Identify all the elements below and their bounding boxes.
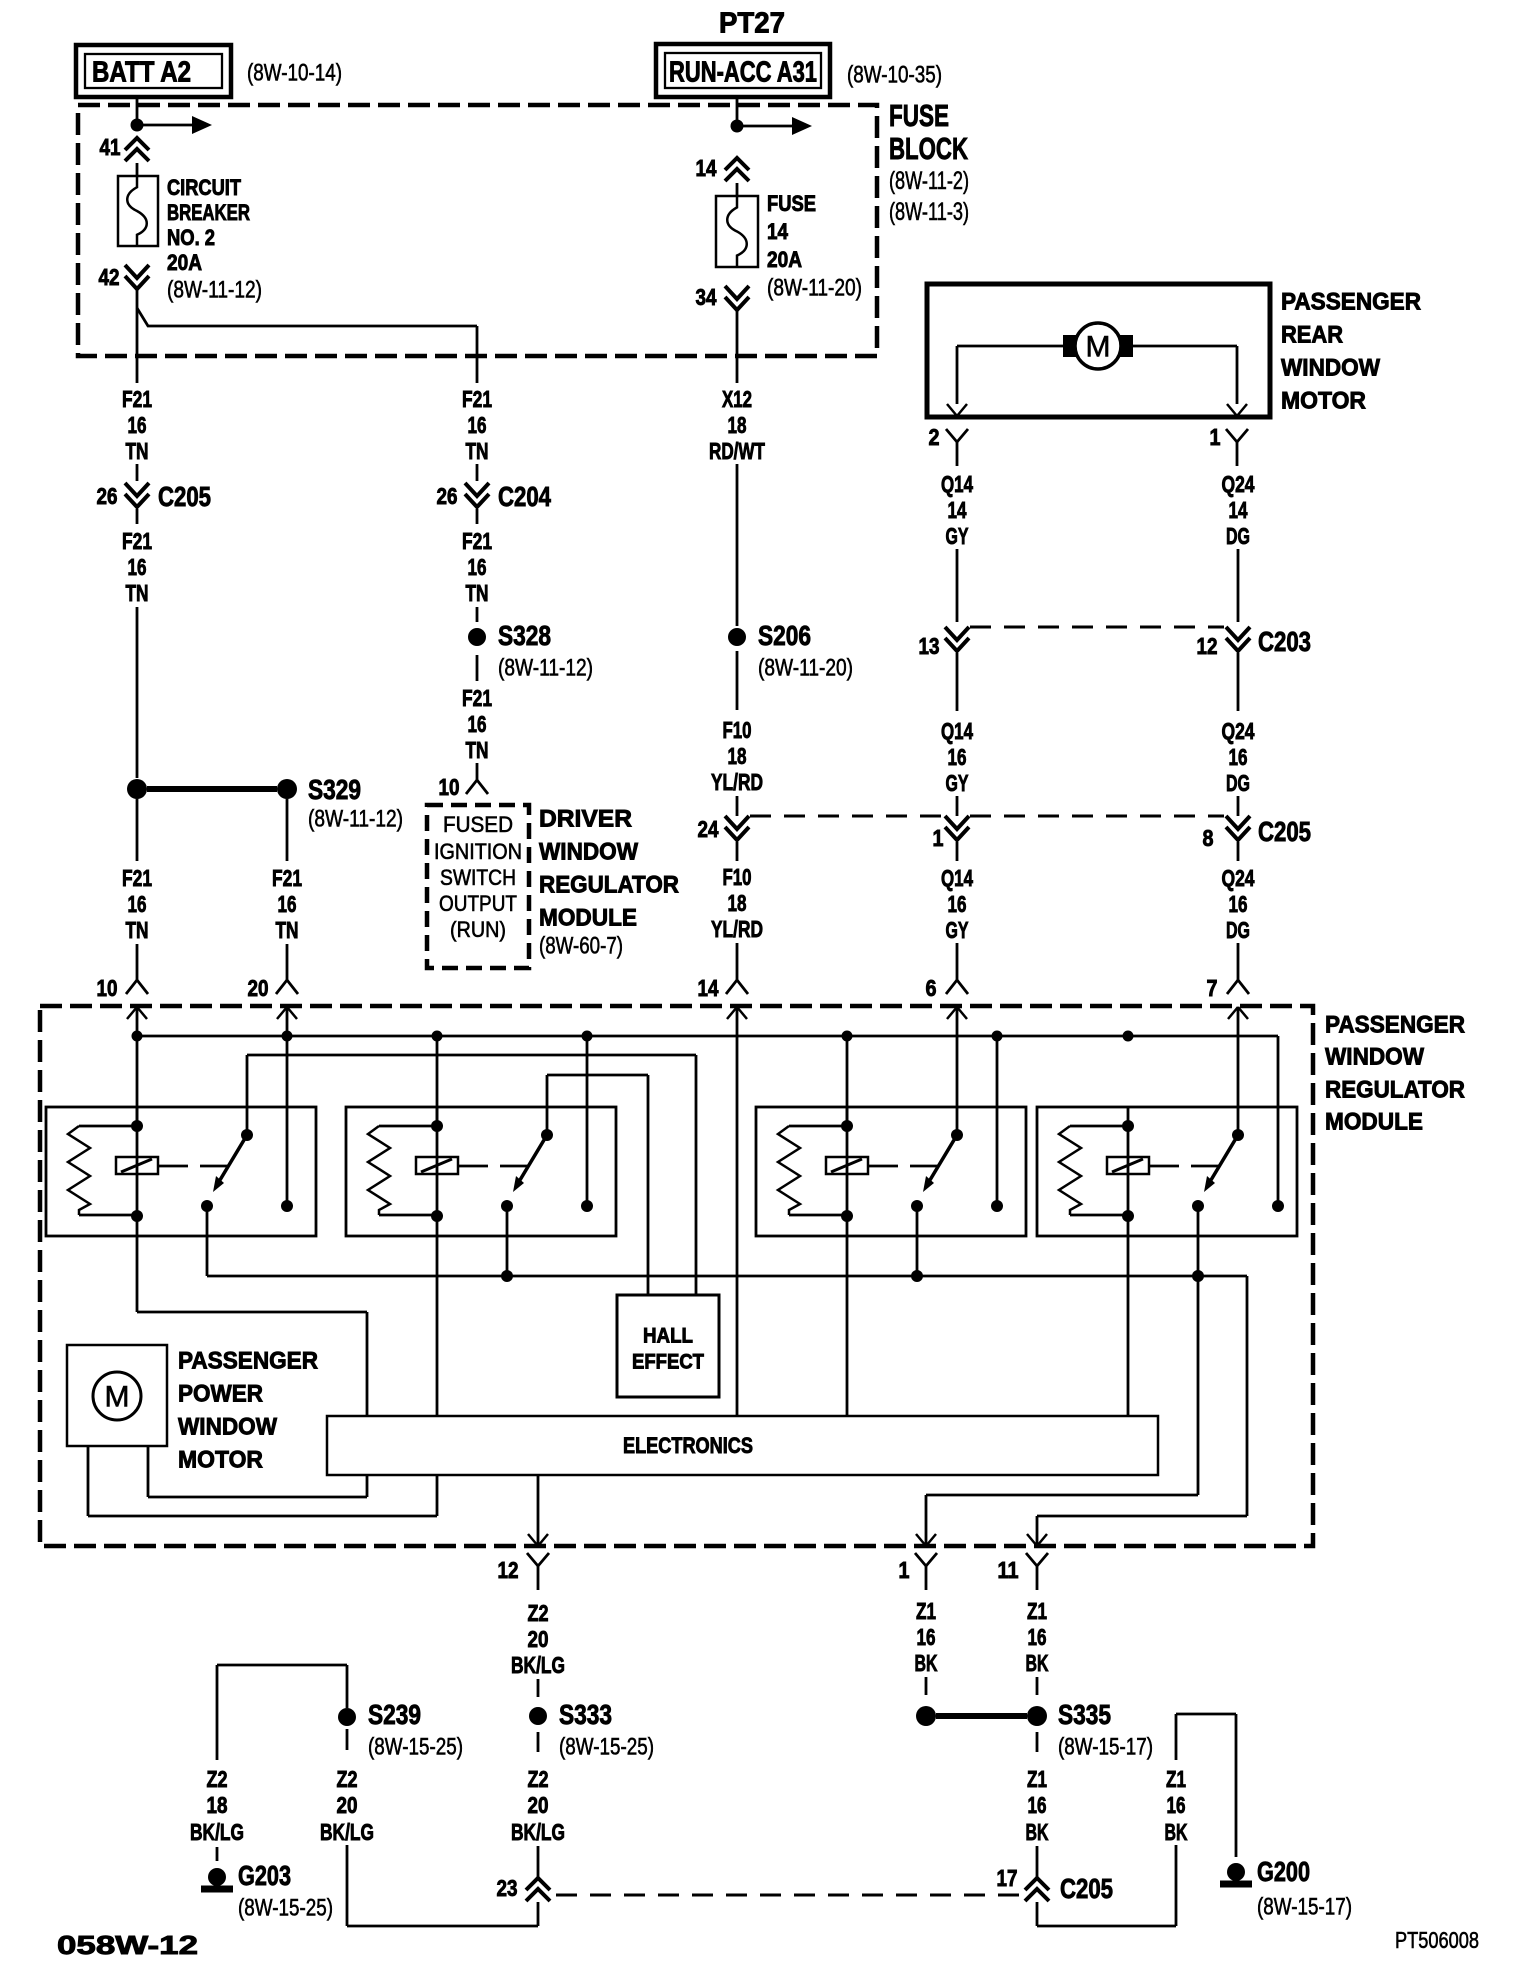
splice S335 xyxy=(916,1706,936,1726)
wire xyxy=(136,464,139,481)
svg-text:F21: F21 xyxy=(122,865,152,891)
svg-text:14: 14 xyxy=(948,497,967,523)
svg-text:POWER: POWER xyxy=(178,1381,263,1408)
wire branch to C204 column xyxy=(137,308,477,326)
svg-text:Z1: Z1 xyxy=(1027,1598,1047,1624)
fuse 14 xyxy=(716,196,758,267)
svg-text:1: 1 xyxy=(899,1557,910,1583)
splice S328 xyxy=(468,628,486,646)
svg-text:FUSED: FUSED xyxy=(443,812,513,837)
svg-text:TN: TN xyxy=(126,438,149,464)
dashed stub xyxy=(1036,1677,1039,1695)
module pin 1 exit arrow xyxy=(916,1534,926,1546)
svg-text:8: 8 xyxy=(1203,825,1214,851)
svg-text:058W-12: 058W-12 xyxy=(57,1930,198,1960)
relay K4 switch xyxy=(1232,1129,1244,1141)
wire rail to pin 1 xyxy=(1197,1276,1200,1495)
svg-text:IGNITION: IGNITION xyxy=(434,839,522,864)
svg-text:14: 14 xyxy=(767,219,789,244)
svg-text:2: 2 xyxy=(929,424,940,450)
svg-text:Z2: Z2 xyxy=(528,1600,549,1626)
wire xyxy=(956,842,959,861)
relay K2 coil line xyxy=(436,1107,439,1236)
svg-text:Q24: Q24 xyxy=(1222,471,1255,497)
relay K2 coil resistor xyxy=(379,1125,432,1128)
wire relay K4 common xyxy=(1197,1206,1200,1276)
svg-text:YL/RD: YL/RD xyxy=(711,916,763,942)
electronics box xyxy=(327,1416,1158,1475)
svg-text:14: 14 xyxy=(1229,497,1248,523)
svg-text:BREAKER: BREAKER xyxy=(167,200,250,225)
svg-text:C205: C205 xyxy=(1258,816,1311,847)
svg-text:FUSE: FUSE xyxy=(889,98,949,133)
svg-text:7: 7 xyxy=(1207,975,1218,1001)
svg-text:16: 16 xyxy=(1229,744,1248,770)
svg-text:12: 12 xyxy=(1197,633,1218,659)
wire relay K4 coil to electronics xyxy=(1127,1236,1130,1416)
svg-text:SWITCH: SWITCH xyxy=(440,865,516,890)
wire BATT A2 to junction xyxy=(136,97,139,125)
svg-text:C203: C203 xyxy=(1258,626,1311,657)
svg-text:(8W-15-17): (8W-15-17) xyxy=(1257,1894,1352,1921)
motor M1 circle xyxy=(1075,323,1121,369)
svg-text:Z2: Z2 xyxy=(528,1766,549,1792)
wire xyxy=(537,1846,540,1878)
relay K2 actuation dashes xyxy=(458,1165,488,1168)
pin 6 entry arrow xyxy=(947,1007,957,1019)
module pin 14 fork xyxy=(736,943,739,964)
wire relay K2 common xyxy=(506,1206,509,1276)
svg-text:HALL: HALL xyxy=(643,1325,693,1348)
wire xyxy=(476,464,479,481)
svg-text:(8W-15-25): (8W-15-25) xyxy=(368,1734,463,1761)
svg-text:BLOCK: BLOCK xyxy=(889,131,968,166)
wire S239 down xyxy=(346,1729,349,1750)
svg-text:16: 16 xyxy=(1028,1792,1047,1818)
svg-text:RD/WT: RD/WT xyxy=(709,438,765,464)
svg-text:M: M xyxy=(1086,331,1111,364)
wire xyxy=(476,509,479,524)
circuit breaker No. 2 xyxy=(118,176,158,246)
wire xyxy=(736,464,739,626)
svg-text:CIRCUIT: CIRCUIT xyxy=(167,175,241,200)
junction dot xyxy=(731,120,744,133)
svg-text:DRIVER: DRIVER xyxy=(539,806,632,833)
svg-text:PASSENGER: PASSENGER xyxy=(1325,1012,1465,1039)
svg-text:C205: C205 xyxy=(158,481,211,512)
svg-text:DG: DG xyxy=(1226,770,1250,796)
svg-text:TN: TN xyxy=(126,580,149,606)
svg-text:11: 11 xyxy=(998,1557,1019,1583)
power feed box BATT A2 xyxy=(76,45,231,97)
svg-text:S329: S329 xyxy=(308,774,361,805)
relay K1 contact xyxy=(281,1200,293,1212)
dashed stub to splice xyxy=(476,607,479,622)
relay K4 actuation dashes xyxy=(1149,1165,1179,1168)
svg-text:M: M xyxy=(105,1381,130,1414)
bus junction dots xyxy=(132,1031,143,1042)
svg-text:Q24: Q24 xyxy=(1222,718,1255,744)
svg-text:YL/RD: YL/RD xyxy=(711,769,763,795)
relay K4 coil line xyxy=(1127,1107,1130,1236)
svg-text:F10: F10 xyxy=(723,864,752,890)
svg-text:PASSENGER: PASSENGER xyxy=(1281,289,1421,316)
svg-text:MOTOR: MOTOR xyxy=(178,1447,263,1474)
svg-text:Z1: Z1 xyxy=(1027,1766,1047,1792)
svg-text:FUSE: FUSE xyxy=(767,191,816,216)
svg-text:(8W-11-20): (8W-11-20) xyxy=(758,655,853,682)
svg-text:10: 10 xyxy=(439,774,460,800)
svg-text:PT506008: PT506008 xyxy=(1395,1927,1479,1953)
relay K2 coil xyxy=(416,1157,458,1174)
svg-text:BK: BK xyxy=(1026,1650,1049,1676)
svg-text:18: 18 xyxy=(728,890,747,916)
svg-text:ELECTRONICS: ELECTRONICS xyxy=(623,1433,753,1458)
svg-text:F10: F10 xyxy=(723,717,752,743)
svg-text:BK: BK xyxy=(1026,1819,1049,1845)
relay K4 box xyxy=(1037,1107,1297,1236)
rail junction dots xyxy=(501,1270,513,1282)
relay K3 actuation dashes xyxy=(868,1165,898,1168)
wire xyxy=(136,509,139,524)
svg-text:PT27: PT27 xyxy=(719,7,785,39)
wire below pin 17 xyxy=(1036,1902,1039,1926)
wire xyxy=(956,653,959,711)
svg-text:26: 26 xyxy=(437,483,458,509)
relay K2 contact xyxy=(581,1200,593,1212)
svg-text:G203: G203 xyxy=(238,1860,291,1891)
dashed link pin 23 to pin 17 xyxy=(556,1894,1024,1897)
power feed box RUN-ACC A31 xyxy=(656,44,830,97)
svg-text:S206: S206 xyxy=(758,620,811,651)
ground G203 xyxy=(208,1868,226,1886)
svg-text:(8W-11-2): (8W-11-2) xyxy=(889,167,969,195)
svg-text:20A: 20A xyxy=(167,250,202,275)
wire below splice right xyxy=(286,799,289,861)
svg-text:RUN-ACC A31: RUN-ACC A31 xyxy=(669,56,817,88)
relay K1 switch xyxy=(241,1129,253,1141)
svg-text:C204: C204 xyxy=(498,481,551,512)
svg-text:20: 20 xyxy=(528,1792,549,1818)
svg-text:REGULATOR: REGULATOR xyxy=(1325,1077,1465,1104)
relay K3 switch xyxy=(951,1129,963,1141)
wire down to splice xyxy=(136,607,139,778)
svg-text:BK: BK xyxy=(1165,1819,1188,1845)
fuse block dashed outline xyxy=(78,105,877,356)
svg-text:BK/LG: BK/LG xyxy=(511,1819,565,1845)
pin 10 fork into driver module xyxy=(476,763,479,780)
svg-text:16: 16 xyxy=(468,711,487,737)
power bus wire xyxy=(137,1035,1278,1038)
wire breaker output down xyxy=(136,290,139,383)
wire S239 up and over xyxy=(346,1665,349,1708)
wire fuse output down xyxy=(736,311,739,383)
module pin 11 exit arrow xyxy=(1027,1534,1037,1546)
wire to circuit breaker xyxy=(136,163,139,176)
svg-text:16: 16 xyxy=(128,554,147,580)
wire motor to electronics left xyxy=(87,1446,90,1516)
arrow feed right xyxy=(137,124,192,127)
svg-text:23: 23 xyxy=(497,1875,518,1901)
wire electronics output pin 12 xyxy=(537,1475,540,1546)
wire to G200 branch xyxy=(1037,1925,1176,1928)
svg-text:24: 24 xyxy=(698,816,719,842)
svg-text:WINDOW: WINDOW xyxy=(178,1414,277,1441)
svg-text:REAR: REAR xyxy=(1281,322,1343,349)
svg-text:DG: DG xyxy=(1226,917,1250,943)
module pin 12 fork xyxy=(527,1553,538,1566)
hall effect sensor box xyxy=(617,1295,719,1397)
relay K1 actuation dashes xyxy=(158,1165,188,1168)
relay K1 coil xyxy=(116,1157,158,1174)
svg-text:MODULE: MODULE xyxy=(1325,1109,1423,1136)
wire below splice left xyxy=(136,799,139,861)
wire up and over to G200 xyxy=(1175,1714,1178,1760)
wire xyxy=(1237,653,1240,711)
relay K2 switch xyxy=(541,1129,553,1141)
svg-text:TN: TN xyxy=(466,580,489,606)
dashed stub xyxy=(1036,1732,1039,1752)
svg-text:20: 20 xyxy=(528,1626,549,1652)
svg-text:41: 41 xyxy=(100,134,121,160)
wire motor terminal 2 xyxy=(957,345,1063,348)
junction dot xyxy=(131,119,144,132)
wire RUN-ACC to junction xyxy=(736,97,739,126)
ground G200 xyxy=(1227,1863,1245,1881)
svg-text:(8W-10-14): (8W-10-14) xyxy=(247,60,342,87)
svg-text:X12: X12 xyxy=(722,386,752,412)
component box passenger power window motor xyxy=(67,1345,167,1446)
svg-text:14: 14 xyxy=(696,155,717,181)
pin 7 entry arrow xyxy=(1228,1007,1238,1019)
svg-text:F21: F21 xyxy=(122,386,152,412)
svg-text:17: 17 xyxy=(997,1865,1018,1891)
svg-text:10: 10 xyxy=(97,975,118,1001)
wire xyxy=(736,842,739,861)
svg-text:S239: S239 xyxy=(368,1699,421,1730)
module pin 7 fork xyxy=(1237,943,1240,964)
svg-text:20A: 20A xyxy=(767,247,802,272)
wire xyxy=(1237,796,1240,816)
svg-text:42: 42 xyxy=(99,264,120,290)
svg-text:6: 6 xyxy=(926,975,937,1001)
wire below splice xyxy=(476,655,479,681)
svg-text:34: 34 xyxy=(696,284,717,310)
wire relay K1 coil to electronics xyxy=(136,1236,139,1312)
svg-text:(8W-10-35): (8W-10-35) xyxy=(847,62,942,89)
dashed stub xyxy=(216,1847,219,1861)
svg-text:(8W-15-17): (8W-15-17) xyxy=(1058,1734,1153,1761)
svg-text:WINDOW: WINDOW xyxy=(539,839,638,866)
wire relay K3 coil to electronics xyxy=(846,1236,849,1416)
svg-text:(8W-11-3): (8W-11-3) xyxy=(889,198,969,226)
svg-text:Q14: Q14 xyxy=(941,718,973,744)
wire relay K3 common xyxy=(916,1206,919,1276)
wire to S239 branch xyxy=(347,1925,538,1928)
svg-text:1: 1 xyxy=(1210,424,1221,450)
svg-text:16: 16 xyxy=(1229,891,1248,917)
svg-text:16: 16 xyxy=(1028,1624,1047,1650)
svg-text:13: 13 xyxy=(919,633,940,659)
wire relay K2 coil to electronics xyxy=(436,1236,439,1416)
svg-text:TN: TN xyxy=(276,917,299,943)
svg-text:16: 16 xyxy=(917,1624,936,1650)
wire xyxy=(736,796,739,816)
svg-text:Z1: Z1 xyxy=(1166,1766,1186,1792)
svg-text:WINDOW: WINDOW xyxy=(1325,1044,1424,1071)
splice S239 xyxy=(338,1708,356,1726)
splice S329 xyxy=(127,779,147,799)
svg-text:16: 16 xyxy=(128,891,147,917)
svg-text:BATT A2: BATT A2 xyxy=(92,56,191,88)
dashed link C205 left xyxy=(750,815,944,818)
relay K1 coil resistor xyxy=(79,1125,132,1128)
svg-text:TN: TN xyxy=(126,917,149,943)
dashed stub xyxy=(925,1677,928,1695)
svg-text:(8W-15-25): (8W-15-25) xyxy=(238,1895,333,1922)
svg-text:REGULATOR: REGULATOR xyxy=(539,872,679,899)
svg-text:BK/LG: BK/LG xyxy=(320,1819,374,1845)
svg-text:1: 1 xyxy=(933,825,944,851)
svg-text:DG: DG xyxy=(1226,523,1250,549)
splice S206 xyxy=(728,628,746,646)
svg-text:Z2: Z2 xyxy=(337,1766,358,1792)
svg-text:F21: F21 xyxy=(462,386,492,412)
svg-text:20: 20 xyxy=(337,1792,358,1818)
relay K4 coil xyxy=(1107,1157,1149,1174)
svg-text:16: 16 xyxy=(468,554,487,580)
dashed link C203 xyxy=(970,626,1224,629)
svg-text:GY: GY xyxy=(946,917,969,943)
wire rail to pin 11 xyxy=(1246,1276,1249,1516)
wire bus to relay coils / contacts xyxy=(136,1036,139,1126)
svg-text:(8W-11-12): (8W-11-12) xyxy=(308,806,403,833)
dashed stub xyxy=(537,1732,540,1752)
svg-text:BK: BK xyxy=(915,1650,938,1676)
svg-text:EFFECT: EFFECT xyxy=(632,1351,704,1374)
component box PASSENGER REAR WINDOW MOTOR xyxy=(927,284,1270,417)
svg-text:F21: F21 xyxy=(272,865,302,891)
pin 14 entry arrow xyxy=(727,1007,737,1019)
svg-text:OUTPUT: OUTPUT xyxy=(439,891,517,916)
wire xyxy=(1237,549,1240,622)
wire to fuse xyxy=(736,183,739,196)
wire below splice xyxy=(736,651,739,710)
wire motor to electronics right xyxy=(147,1446,150,1497)
svg-text:WINDOW: WINDOW xyxy=(1281,355,1380,382)
svg-text:18: 18 xyxy=(728,412,747,438)
svg-text:MOTOR: MOTOR xyxy=(1281,388,1366,415)
wire xyxy=(1237,842,1240,861)
wire xyxy=(956,796,959,816)
svg-text:16: 16 xyxy=(468,412,487,438)
svg-text:16: 16 xyxy=(278,891,297,917)
wire relay K1 pivot to hall line xyxy=(246,1055,249,1135)
svg-text:16: 16 xyxy=(948,744,967,770)
svg-text:Q14: Q14 xyxy=(941,865,973,891)
relay K3 box xyxy=(756,1107,1026,1236)
svg-text:18: 18 xyxy=(728,743,747,769)
svg-text:(8W-11-20): (8W-11-20) xyxy=(767,275,862,302)
pin 20 entry arrow xyxy=(277,1007,287,1019)
motor pin 1 fork xyxy=(1226,429,1237,442)
motor pin 2 fork xyxy=(946,429,957,442)
wire relay K2 pivot to hall line xyxy=(546,1075,549,1135)
driver module input box FUSED IGNITION SWITCH OUTPUT (RUN) xyxy=(427,805,529,968)
svg-text:C205: C205 xyxy=(1060,1873,1113,1904)
svg-text:PASSENGER: PASSENGER xyxy=(178,1348,318,1375)
wire motor terminal 1 xyxy=(1133,345,1237,348)
svg-text:MODULE: MODULE xyxy=(539,905,637,932)
module dashed outline PASSENGER WINDOW REGULATOR MODULE xyxy=(40,1006,1313,1546)
svg-text:16: 16 xyxy=(128,412,147,438)
dashed stub xyxy=(537,1679,540,1697)
svg-text:TN: TN xyxy=(466,438,489,464)
svg-text:S333: S333 xyxy=(559,1699,612,1730)
svg-text:12: 12 xyxy=(498,1557,519,1583)
svg-text:18: 18 xyxy=(207,1792,228,1818)
common rail wire xyxy=(206,1206,209,1276)
pin 10 entry arrow xyxy=(127,1007,137,1019)
relay K1 coil line xyxy=(136,1107,139,1236)
relay K4 coil resistor xyxy=(1070,1125,1123,1128)
wire below pin 23 xyxy=(537,1902,540,1926)
svg-text:F21: F21 xyxy=(462,685,492,711)
relay K3 coil line xyxy=(846,1107,849,1236)
svg-text:16: 16 xyxy=(1167,1792,1186,1818)
svg-text:(8W-11-12): (8W-11-12) xyxy=(498,655,593,682)
svg-text:(RUN): (RUN) xyxy=(450,917,506,942)
svg-text:26: 26 xyxy=(97,483,118,509)
svg-text:20: 20 xyxy=(248,975,269,1001)
svg-text:Z1: Z1 xyxy=(916,1598,936,1624)
module pin 6 fork xyxy=(956,943,959,964)
relay K4 contact xyxy=(1272,1200,1284,1212)
wire xyxy=(1036,1846,1039,1878)
svg-text:G200: G200 xyxy=(1257,1856,1310,1887)
svg-text:Q14: Q14 xyxy=(941,471,973,497)
svg-text:GY: GY xyxy=(946,770,969,796)
relay K2 box xyxy=(346,1107,616,1236)
module pin 10 fork xyxy=(136,944,139,964)
svg-text:NO. 2: NO. 2 xyxy=(167,225,215,250)
motor M2 circle xyxy=(93,1372,141,1420)
relay K3 coil xyxy=(826,1157,868,1174)
svg-text:(8W-60-7): (8W-60-7) xyxy=(539,933,623,960)
svg-text:F21: F21 xyxy=(122,528,152,554)
svg-text:TN: TN xyxy=(466,737,489,763)
splice S333 xyxy=(529,1707,547,1725)
svg-text:Q24: Q24 xyxy=(1222,865,1255,891)
svg-text:S328: S328 xyxy=(498,620,551,651)
svg-text:(8W-15-25): (8W-15-25) xyxy=(559,1734,654,1761)
svg-text:(8W-11-12): (8W-11-12) xyxy=(167,277,262,304)
svg-text:14: 14 xyxy=(698,975,719,1001)
module pin 20 fork xyxy=(286,944,289,964)
svg-text:S335: S335 xyxy=(1058,1699,1111,1730)
dashed link C205 right xyxy=(970,815,1224,818)
svg-text:BK/LG: BK/LG xyxy=(190,1819,244,1845)
wire xyxy=(956,549,959,622)
motor brush tabs xyxy=(1063,335,1076,357)
relay K3 coil resistor xyxy=(789,1125,842,1128)
relay K1 box xyxy=(46,1107,316,1236)
svg-text:Z2: Z2 xyxy=(207,1766,228,1792)
svg-text:16: 16 xyxy=(948,891,967,917)
arrow feed right xyxy=(737,125,792,128)
svg-text:F21: F21 xyxy=(462,528,492,554)
svg-text:GY: GY xyxy=(946,523,969,549)
